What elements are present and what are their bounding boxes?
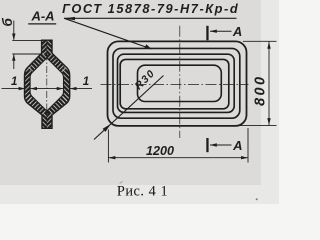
contour C4 xyxy=(120,59,229,108)
section plane mark bottom xyxy=(206,138,208,152)
figure halftone block xyxy=(0,0,261,185)
wall thickness "1" right xyxy=(70,88,92,90)
contour C3 xyxy=(118,54,235,112)
vertical centerline xyxy=(179,26,181,138)
svg-text:Рис. 4 1: Рис. 4 1 xyxy=(117,184,168,200)
R30 leader xyxy=(94,76,164,140)
extension line 1 (tab top) xyxy=(12,39,43,41)
weld hatching (white slits), mirrored halves xyxy=(24,39,71,130)
R30 arrowhead on outer corner arc xyxy=(103,124,111,132)
scan noise xyxy=(0,0,261,185)
contour C5 (inner opening) xyxy=(138,65,222,101)
specks xyxy=(256,198,258,200)
1200 dimension xyxy=(108,128,248,163)
extension line 2 (shoulder) xyxy=(12,53,41,55)
800 arrowheads xyxy=(267,42,270,49)
top tab chevron halves xyxy=(40,39,47,55)
contour C2 (weld seam line) xyxy=(113,48,240,118)
bottom slopes xyxy=(25,92,49,118)
b dimension line lower segment with up arrow xyxy=(13,54,15,69)
vertical walls xyxy=(24,67,32,106)
section outlines xyxy=(25,40,70,128)
section plane mark top xyxy=(206,26,208,40)
1200 arrowheads xyxy=(108,156,115,159)
leader from shelf to seam xyxy=(64,18,151,49)
section wall band (two bent sheets), dark fill xyxy=(25,40,70,128)
contour C1 (outer edge of part) xyxy=(108,41,247,126)
roof slopes, ticks across band xyxy=(24,51,50,76)
inner double arrow (wall inner surfaces) xyxy=(31,88,63,90)
bottom tab chevron halves xyxy=(40,114,47,131)
page background xyxy=(0,0,279,204)
leader arrowhead xyxy=(144,44,151,49)
vertical centerline of section xyxy=(46,41,48,128)
horizontal centerline xyxy=(101,84,249,86)
b dimension line upper segment with down arrow xyxy=(12,21,43,70)
800 dimension xyxy=(240,41,277,125)
underline of A-A xyxy=(28,23,56,25)
shelf left arrow blob xyxy=(64,17,76,20)
designation shelf underline xyxy=(64,17,237,19)
